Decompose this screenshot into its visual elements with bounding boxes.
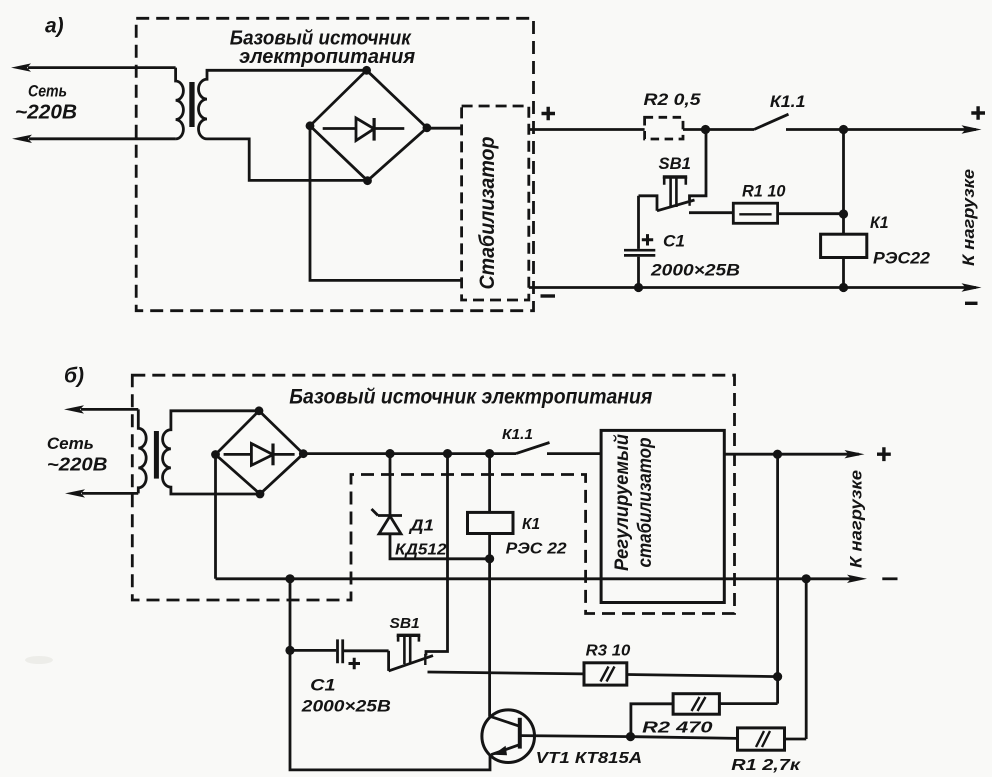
svg-text:Базовый источник электропитани: Базовый источник электропитания	[289, 386, 652, 409]
svg-text:К1: К1	[870, 214, 889, 232]
svg-text:~220В: ~220В	[47, 455, 108, 475]
svg-text:стабилизатор: стабилизатор	[634, 437, 656, 567]
svg-text:Стабилизатор: Стабилизатор	[475, 137, 499, 290]
svg-text:R1 10: R1 10	[742, 183, 786, 201]
svg-text:Регулируемый: Регулируемый	[611, 434, 633, 571]
svg-text:РЭС 22: РЭС 22	[506, 541, 567, 558]
svg-text:2000×25В: 2000×25В	[301, 697, 391, 716]
svg-text:SB1: SB1	[390, 616, 420, 632]
svg-text:а): а)	[45, 15, 64, 38]
svg-text:R2 0,5: R2 0,5	[644, 90, 702, 109]
svg-text:VT1 КТ815А: VT1 КТ815А	[536, 750, 643, 767]
svg-text:К нагрузке: К нагрузке	[960, 169, 978, 266]
svg-text:электропитания: электропитания	[239, 45, 415, 68]
svg-text:РЭС22: РЭС22	[873, 249, 931, 268]
svg-text:SB1: SB1	[659, 155, 691, 173]
svg-text:R2 470: R2 470	[642, 720, 712, 737]
svg-text:Д1: Д1	[408, 518, 434, 535]
svg-text:C1: C1	[310, 676, 335, 695]
svg-text:Сеть: Сеть	[47, 434, 94, 453]
svg-text:К1: К1	[522, 516, 540, 533]
svg-text:C1: C1	[663, 233, 685, 251]
svg-text:~220В: ~220В	[15, 102, 77, 124]
svg-text:КД512: КД512	[395, 542, 447, 559]
svg-text:б): б)	[64, 365, 84, 388]
svg-text:К1.1: К1.1	[502, 426, 533, 443]
svg-text:2000×25В: 2000×25В	[650, 261, 740, 280]
svg-text:К нагрузке: К нагрузке	[848, 470, 866, 568]
svg-text:R1 2,7к: R1 2,7к	[731, 757, 801, 774]
svg-text:Сеть: Сеть	[28, 83, 67, 101]
svg-text:R3 10: R3 10	[586, 643, 631, 660]
svg-text:К1.1: К1.1	[770, 92, 806, 111]
